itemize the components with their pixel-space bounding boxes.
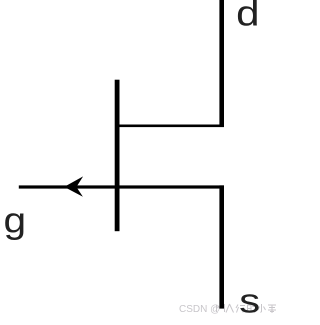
svg-text:s: s — [239, 283, 260, 320]
svg-text:g: g — [4, 201, 27, 241]
svg-text:CSDN @: CSDN @ — [179, 304, 220, 315]
svg-text:d: d — [236, 0, 259, 34]
